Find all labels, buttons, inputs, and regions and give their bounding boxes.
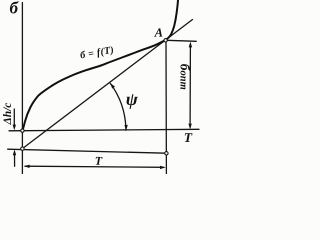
svg-text:T: T xyxy=(95,154,103,168)
svg-text:Δh/c: Δh/c xyxy=(2,103,14,126)
svg-text:A: A xyxy=(154,26,163,40)
svg-text:ψ: ψ xyxy=(126,89,139,109)
svg-text:T: T xyxy=(184,130,193,145)
